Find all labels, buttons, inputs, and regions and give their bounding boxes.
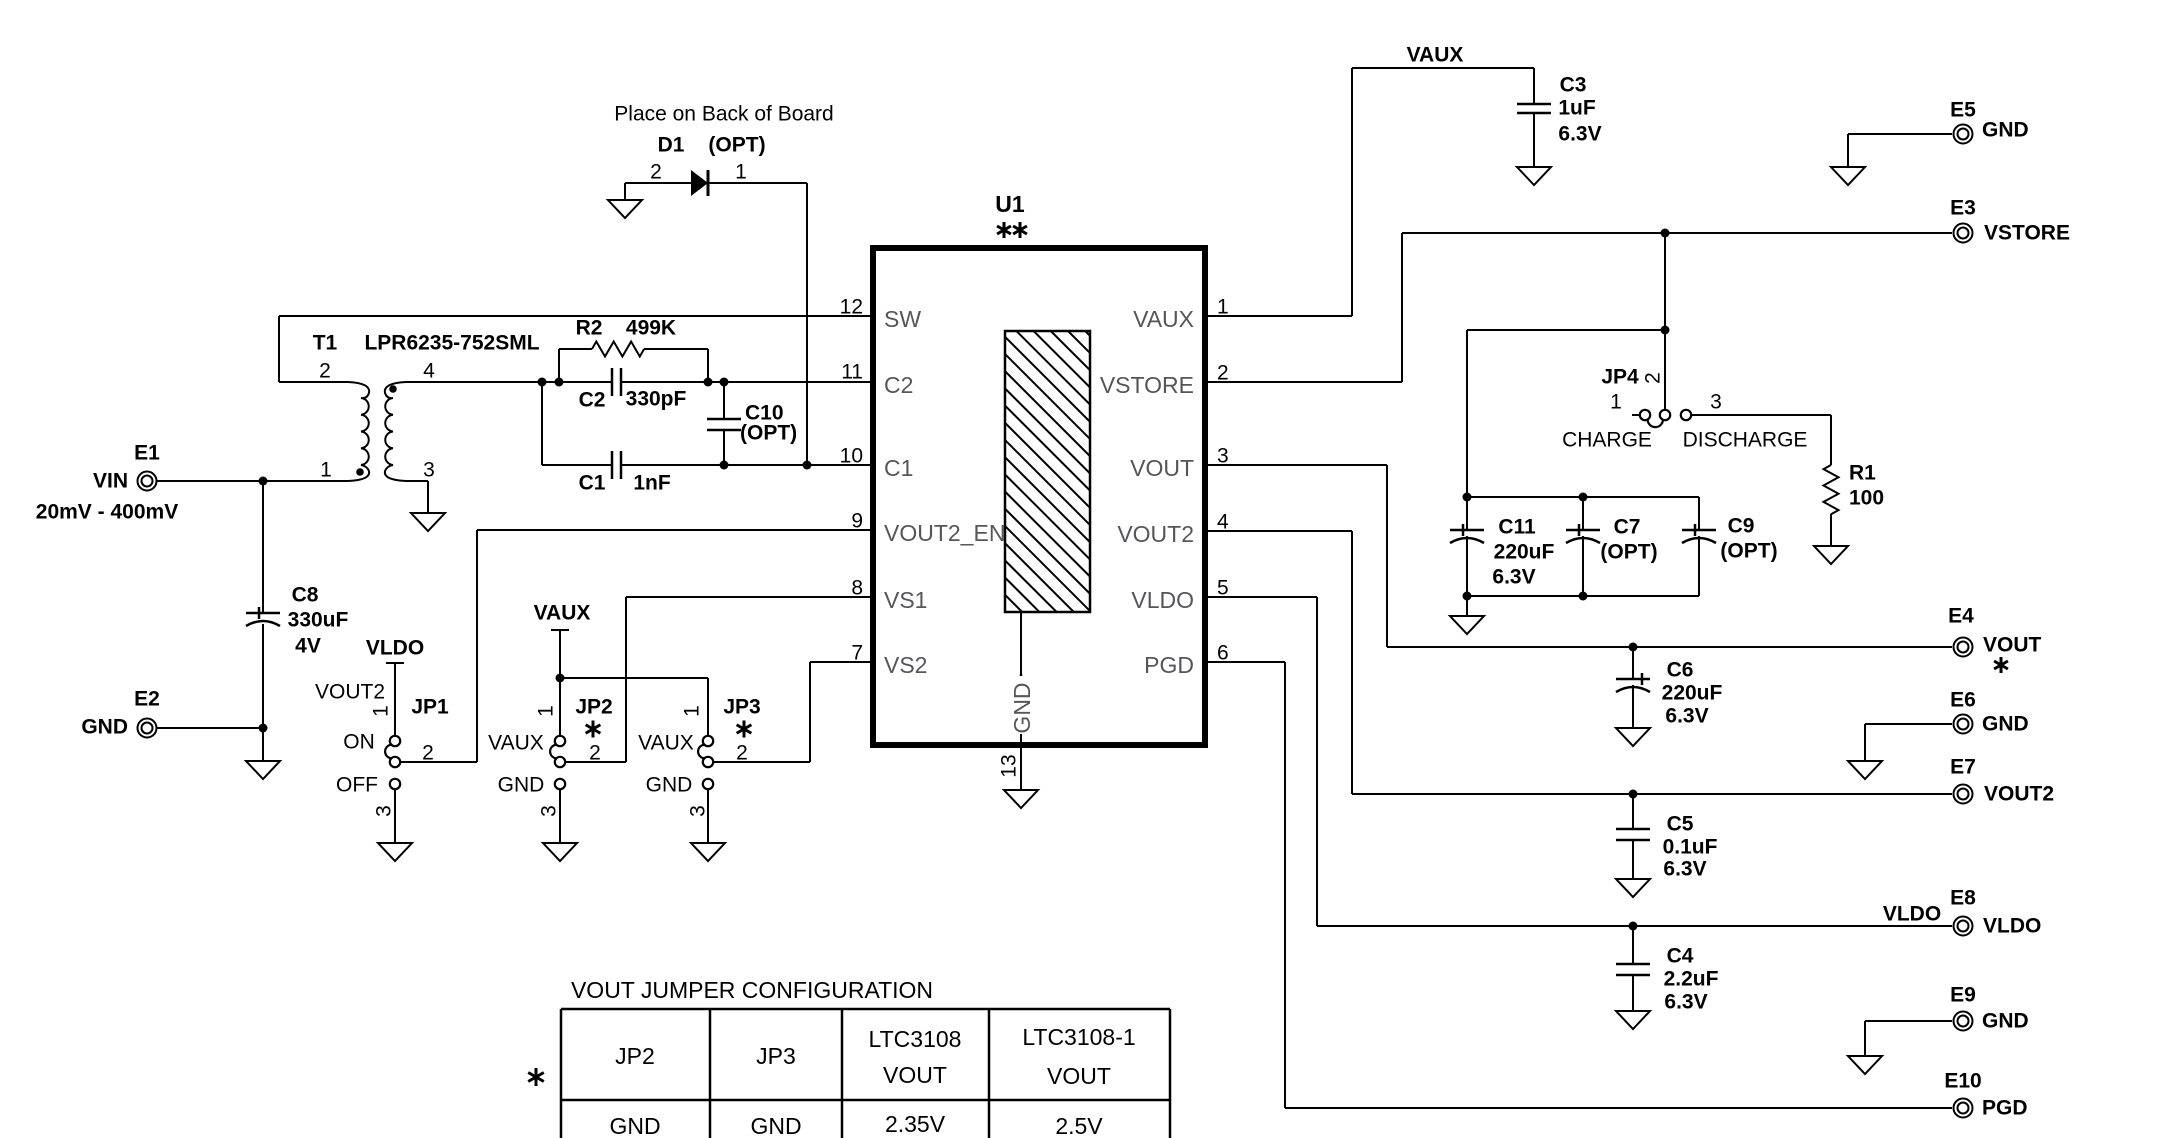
svg-text:1: 1 (735, 161, 747, 184)
svg-text:PGD: PGD (1982, 1097, 2028, 1120)
svg-text:330pF: 330pF (626, 388, 687, 411)
svg-text:VAUX: VAUX (534, 602, 591, 625)
svg-text:1uF: 1uF (1558, 97, 1596, 120)
svg-text:220uF: 220uF (1662, 682, 1723, 705)
svg-text:C11: C11 (1498, 516, 1536, 539)
svg-text:(OPT): (OPT) (740, 422, 797, 445)
svg-text:GND: GND (750, 1113, 801, 1138)
svg-text:20mV - 400mV: 20mV - 400mV (36, 501, 178, 524)
svg-text:VIN: VIN (93, 470, 128, 493)
svg-text:GND: GND (1982, 713, 2029, 736)
svg-text:LPR6235-752SML: LPR6235-752SML (364, 332, 539, 355)
svg-text:9: 9 (851, 510, 863, 533)
svg-text:GND: GND (1982, 119, 2029, 142)
svg-text:2: 2 (422, 742, 434, 765)
svg-text:VSTORE: VSTORE (1100, 372, 1194, 398)
svg-text:1: 1 (1217, 296, 1229, 319)
svg-text:GND: GND (498, 774, 545, 797)
svg-text:VLDO: VLDO (366, 637, 424, 660)
svg-text:JP3: JP3 (723, 696, 760, 719)
svg-text:8: 8 (851, 577, 863, 600)
svg-text:E1: E1 (134, 442, 160, 465)
svg-text:JP2: JP2 (615, 1043, 655, 1069)
svg-text:E5: E5 (1950, 99, 1976, 122)
svg-text:5: 5 (1217, 577, 1229, 600)
svg-text:12: 12 (840, 296, 863, 319)
svg-text:4V: 4V (295, 635, 321, 658)
svg-text:(OPT): (OPT) (1720, 540, 1777, 563)
svg-text:T1: T1 (313, 332, 338, 355)
svg-text:13: 13 (998, 754, 1021, 777)
svg-text:VOUT: VOUT (883, 1062, 947, 1088)
svg-text:PGD: PGD (1144, 652, 1194, 678)
svg-text:3: 3 (423, 459, 435, 482)
svg-text:ON: ON (343, 731, 375, 754)
svg-text:GND: GND (609, 1113, 660, 1138)
svg-text:JP1: JP1 (411, 696, 449, 719)
svg-text:7: 7 (851, 642, 863, 665)
svg-text:VOUT2: VOUT2 (1984, 783, 2054, 806)
svg-text:VOUT: VOUT (1130, 455, 1194, 481)
svg-text:(OPT): (OPT) (1600, 541, 1657, 564)
svg-text:1: 1 (681, 705, 704, 717)
svg-text:2: 2 (736, 742, 748, 765)
svg-text:6.3V: 6.3V (1665, 705, 1708, 728)
svg-text:D1: D1 (658, 134, 685, 157)
svg-text:VLDO: VLDO (1131, 587, 1194, 613)
svg-text:4: 4 (1217, 511, 1229, 534)
svg-text:C5: C5 (1667, 813, 1694, 836)
svg-text:2.35V: 2.35V (885, 1111, 946, 1137)
svg-text:(OPT): (OPT) (708, 134, 765, 157)
svg-text:E3: E3 (1950, 197, 1976, 220)
svg-text:JP3: JP3 (756, 1043, 796, 1069)
svg-text:DISCHARGE: DISCHARGE (1683, 429, 1808, 452)
svg-text:E4: E4 (1948, 605, 1974, 628)
svg-text:1nF: 1nF (633, 472, 671, 495)
svg-text:2: 2 (650, 161, 662, 184)
svg-text:GND: GND (646, 774, 693, 797)
svg-text:1: 1 (1610, 391, 1622, 414)
svg-text:6.3V: 6.3V (1664, 991, 1707, 1014)
svg-text:R2: R2 (576, 317, 603, 340)
svg-text:330uF: 330uF (288, 609, 349, 632)
svg-text:VOUT2: VOUT2 (1117, 521, 1194, 547)
svg-text:GND: GND (81, 716, 128, 739)
svg-text:2: 2 (319, 360, 331, 383)
svg-text:E9: E9 (1950, 984, 1976, 1007)
svg-text:GND: GND (1982, 1010, 2029, 1033)
svg-text:VAUX: VAUX (1133, 306, 1194, 332)
svg-text:11: 11 (841, 361, 863, 384)
svg-text:3: 3 (1217, 445, 1229, 468)
svg-text:C7: C7 (1614, 516, 1641, 539)
svg-text:3: 3 (538, 805, 561, 817)
svg-text:4: 4 (423, 360, 435, 383)
svg-text:LTC3108: LTC3108 (869, 1026, 962, 1052)
svg-text:C4: C4 (1667, 945, 1694, 968)
svg-text:VOUT: VOUT (1983, 634, 2042, 657)
svg-text:E6: E6 (1950, 689, 1976, 712)
svg-text:Place on Back of Board: Place on Back of Board (614, 103, 833, 126)
svg-text:6.3V: 6.3V (1558, 123, 1601, 146)
svg-text:U1: U1 (995, 191, 1025, 217)
svg-text:499K: 499K (626, 317, 676, 340)
svg-text:2: 2 (1217, 362, 1229, 385)
svg-text:C9: C9 (1728, 515, 1755, 538)
svg-text:C1: C1 (884, 455, 913, 481)
svg-text:LTC3108-1: LTC3108-1 (1022, 1024, 1135, 1050)
svg-text:6.3V: 6.3V (1663, 858, 1706, 881)
svg-text:VLDO: VLDO (1883, 903, 1941, 926)
svg-text:VS2: VS2 (884, 652, 927, 678)
svg-text:VAUX: VAUX (1407, 44, 1464, 67)
svg-text:1: 1 (370, 705, 393, 717)
svg-text:1: 1 (535, 705, 558, 717)
svg-text:VOUT: VOUT (1047, 1063, 1111, 1089)
svg-text:2.5V: 2.5V (1055, 1113, 1103, 1138)
svg-text:1: 1 (320, 459, 332, 482)
svg-text:E8: E8 (1950, 887, 1976, 910)
svg-text:E7: E7 (1950, 756, 1976, 779)
svg-text:JP4: JP4 (1601, 366, 1639, 389)
svg-text:6: 6 (1217, 642, 1229, 665)
svg-text:C6: C6 (1667, 659, 1694, 682)
svg-text:E2: E2 (134, 688, 160, 711)
svg-text:C1: C1 (579, 472, 606, 495)
svg-text:VLDO: VLDO (1983, 915, 2041, 938)
svg-text:SW: SW (884, 306, 921, 332)
svg-text:VSTORE: VSTORE (1984, 222, 2070, 245)
svg-text:VOUT2_EN: VOUT2_EN (884, 520, 1005, 546)
svg-text:220uF: 220uF (1494, 541, 1555, 564)
svg-text:VAUX: VAUX (638, 732, 694, 755)
svg-text:E10: E10 (1944, 1070, 1981, 1093)
svg-text:0.1uF: 0.1uF (1663, 836, 1718, 859)
svg-text:6.3V: 6.3V (1492, 566, 1535, 589)
svg-text:VOUT JUMPER CONFIGURATION: VOUT JUMPER CONFIGURATION (571, 977, 933, 1003)
svg-text:JP2: JP2 (575, 696, 612, 719)
svg-text:GND: GND (1009, 682, 1035, 733)
svg-text:VOUT2: VOUT2 (315, 681, 385, 704)
svg-text:VAUX: VAUX (488, 732, 544, 755)
svg-text:3: 3 (373, 805, 396, 817)
svg-text:C3: C3 (1560, 74, 1587, 97)
svg-text:2: 2 (1642, 372, 1665, 384)
svg-text:3: 3 (687, 805, 710, 817)
svg-text:C2: C2 (579, 389, 606, 412)
svg-text:OFF: OFF (336, 774, 378, 797)
svg-text:R1: R1 (1849, 462, 1876, 485)
svg-text:CHARGE: CHARGE (1562, 429, 1652, 452)
svg-text:10: 10 (840, 445, 863, 468)
svg-text:3: 3 (1710, 391, 1722, 414)
svg-text:2.2uF: 2.2uF (1664, 968, 1719, 991)
svg-text:C2: C2 (884, 372, 913, 398)
svg-text:2: 2 (589, 742, 601, 765)
svg-text:C8: C8 (292, 584, 319, 607)
svg-text:100: 100 (1849, 487, 1884, 510)
svg-text:VS1: VS1 (884, 587, 927, 613)
